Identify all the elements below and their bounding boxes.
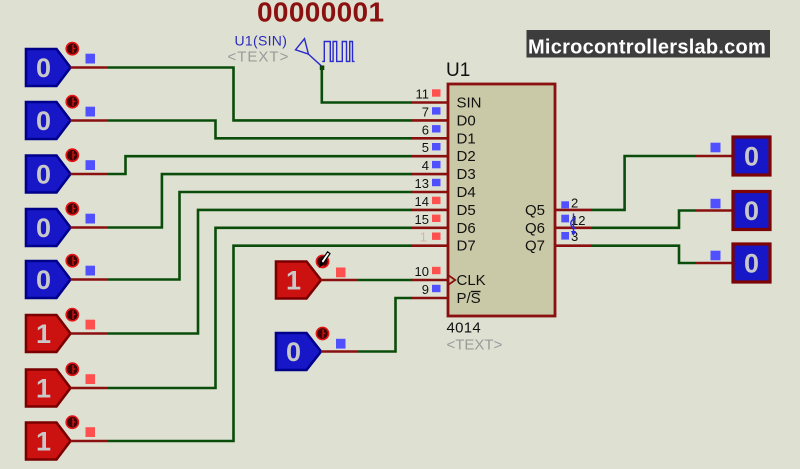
svg-text:0: 0 bbox=[36, 265, 51, 295]
logic output probe C (0) bbox=[696, 244, 770, 282]
svg-text:11: 11 bbox=[416, 87, 430, 102]
logic state square pin 11 (red) bbox=[432, 89, 441, 96]
pin stub SIN bbox=[412, 101, 450, 104]
svg-text:1: 1 bbox=[36, 374, 51, 404]
wire: PS probe to P/S pin bbox=[358, 298, 412, 352]
wire: Q5 to output probe A bbox=[591, 156, 696, 210]
svg-text:1: 1 bbox=[420, 230, 427, 245]
svg-text:D6: D6 bbox=[457, 220, 476, 237]
logic input probe 3 (0) bbox=[26, 149, 108, 192]
svg-text:CLK: CLK bbox=[457, 272, 486, 289]
wire: Q7 to output probe C bbox=[591, 246, 696, 263]
logic input probe P/S (0) bbox=[276, 327, 358, 370]
svg-text:10: 10 bbox=[415, 264, 429, 279]
logic output probe B (0) bbox=[696, 192, 770, 230]
pin stub D6 bbox=[412, 227, 450, 230]
svg-text:Microcontrollerslab.com: Microcontrollerslab.com bbox=[528, 36, 766, 58]
svg-text:0: 0 bbox=[36, 160, 51, 190]
wire: probe7 to D6 bbox=[108, 228, 412, 388]
probe marker arrow at Q6 bbox=[571, 214, 576, 237]
svg-text:6: 6 bbox=[422, 122, 429, 137]
junction node at generator tail bbox=[320, 66, 325, 71]
wire: probe5 to D4 bbox=[108, 192, 412, 280]
pin stub D5 bbox=[412, 209, 450, 212]
logic state square pin 2 (blue) bbox=[561, 201, 569, 208]
wire: CLK probe to CLK pin bbox=[358, 279, 412, 282]
svg-text:D7: D7 bbox=[457, 238, 476, 255]
svg-text:00000001: 00000001 bbox=[257, 0, 384, 28]
watermark banner bbox=[527, 30, 771, 58]
pin stub D4 bbox=[412, 191, 450, 194]
pin stub Q7 bbox=[554, 244, 592, 247]
svg-text:D0: D0 bbox=[457, 112, 476, 129]
pin stub D3 bbox=[412, 173, 450, 176]
svg-text:0: 0 bbox=[744, 249, 759, 279]
logic input probe 5 (0) bbox=[26, 255, 108, 298]
logic state square pin 6 (blue) bbox=[432, 125, 441, 132]
logic state square pin 4 (blue) bbox=[432, 161, 441, 168]
logic state square pin 10 (red) bbox=[432, 267, 441, 274]
svg-text:13: 13 bbox=[415, 176, 429, 191]
logic state square pin 15 (red) bbox=[432, 215, 441, 222]
logic input probe 7 (1) bbox=[26, 363, 108, 406]
svg-text:<TEXT>: <TEXT> bbox=[228, 48, 290, 65]
svg-text:<TEXT>: <TEXT> bbox=[447, 337, 503, 354]
svg-text:Q5: Q5 bbox=[525, 202, 545, 219]
svg-text:U1(SIN): U1(SIN) bbox=[235, 32, 288, 48]
svg-text:Q7: Q7 bbox=[525, 238, 545, 255]
logic state square pin 1 (red) bbox=[432, 233, 441, 240]
svg-text:0: 0 bbox=[36, 106, 51, 136]
svg-text:0: 0 bbox=[744, 196, 759, 226]
pin stub CLK bbox=[412, 279, 450, 282]
logic state square pin 9 (blue) bbox=[432, 285, 441, 292]
mouse cursor (pen) over CLK toggle bbox=[320, 252, 330, 267]
pin stub P/S bbox=[412, 297, 450, 300]
logic state square pin 13 (blue) bbox=[432, 179, 441, 186]
logic input probe 8 (1) bbox=[26, 416, 108, 459]
wire: generator to SIN pin bbox=[322, 67, 412, 103]
svg-text:7: 7 bbox=[422, 104, 429, 119]
wire: probe6 to D5 bbox=[108, 210, 412, 334]
svg-text:1: 1 bbox=[36, 427, 51, 457]
wire: probe2 to D1 bbox=[108, 121, 412, 139]
pin stub D7 bbox=[412, 244, 450, 247]
logic input probe 4 (0) bbox=[26, 203, 108, 246]
wire: probe1 to D0 bbox=[108, 68, 412, 121]
logic state square pin 3 (blue) bbox=[561, 232, 569, 240]
pin stub Q5 bbox=[554, 209, 592, 212]
pin stub D1 bbox=[412, 137, 450, 140]
svg-text:D5: D5 bbox=[457, 202, 476, 219]
svg-text:D4: D4 bbox=[457, 184, 476, 201]
svg-text:4014: 4014 bbox=[447, 320, 482, 337]
clock chevron on CLK pin bbox=[448, 275, 455, 284]
svg-text:Q6: Q6 bbox=[525, 220, 545, 237]
svg-text:9: 9 bbox=[422, 282, 429, 297]
wire: probe4 to D3 bbox=[108, 174, 412, 227]
svg-text:D3: D3 bbox=[457, 166, 476, 183]
logic input probe 6 (1) bbox=[26, 309, 108, 352]
svg-text:0: 0 bbox=[36, 213, 51, 243]
svg-text:2: 2 bbox=[571, 195, 578, 210]
svg-text:D2: D2 bbox=[457, 148, 476, 165]
svg-text:U1: U1 bbox=[446, 60, 470, 81]
logic output probe A (0) bbox=[696, 137, 770, 175]
svg-text:1: 1 bbox=[36, 319, 51, 349]
logic state square pin 5 (blue) bbox=[432, 143, 441, 150]
wire: probe8 to D7 bbox=[108, 246, 412, 441]
svg-text:0: 0 bbox=[744, 142, 759, 172]
logic input probe 1 (0) bbox=[26, 43, 108, 86]
generator symbol (clock source) bbox=[296, 39, 355, 67]
logic state square pin 14 (red) bbox=[432, 197, 441, 204]
logic state square pin 12 (blue) bbox=[561, 215, 569, 223]
svg-text:SIN: SIN bbox=[457, 95, 482, 112]
pin stub Q6 bbox=[554, 227, 592, 230]
svg-text:0: 0 bbox=[36, 53, 51, 83]
pin stub D2 bbox=[412, 155, 450, 158]
logic input probe CLK (1) bbox=[276, 255, 358, 298]
svg-text:4: 4 bbox=[422, 158, 429, 173]
svg-text:15: 15 bbox=[415, 212, 429, 227]
wire: Q6 to output probe B bbox=[591, 211, 696, 228]
pin stub D0 bbox=[412, 119, 450, 122]
svg-text:D1: D1 bbox=[457, 130, 476, 147]
logic state square pin 7 (blue) bbox=[432, 107, 441, 114]
svg-text:1: 1 bbox=[286, 266, 301, 296]
svg-text:0: 0 bbox=[286, 337, 301, 367]
logic input probe 2 (0) bbox=[26, 96, 108, 139]
wire: probe3 to D2 bbox=[108, 156, 412, 174]
IC U1 body (4014) bbox=[448, 84, 555, 316]
svg-text:P/S: P/S bbox=[457, 290, 481, 307]
svg-text:14: 14 bbox=[415, 194, 429, 209]
svg-text:5: 5 bbox=[422, 140, 429, 155]
